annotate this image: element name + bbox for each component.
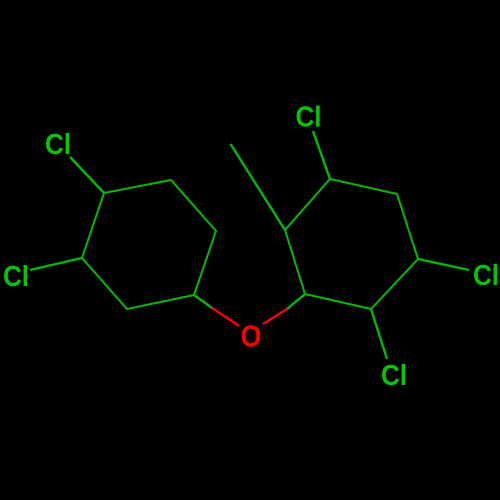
svg-text:Cl: Cl — [473, 260, 499, 292]
svg-text:Cl: Cl — [3, 261, 29, 293]
svg-text:Cl: Cl — [45, 129, 71, 161]
svg-text:O: O — [241, 319, 262, 354]
svg-text:Cl: Cl — [296, 102, 322, 134]
svg-text:Cl: Cl — [381, 360, 407, 392]
